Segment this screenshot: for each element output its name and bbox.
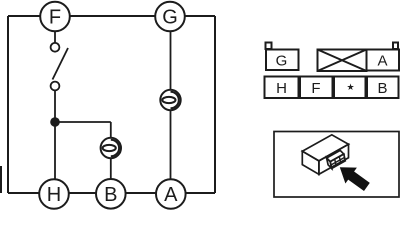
svg-text:G: G [276, 52, 288, 69]
svg-text:H: H [47, 184, 61, 206]
svg-text:F: F [311, 80, 320, 97]
svg-text:A: A [164, 184, 178, 206]
svg-text:G: G [162, 7, 178, 29]
svg-text:B: B [104, 184, 117, 206]
svg-text:B: B [377, 80, 387, 97]
svg-text:F: F [49, 7, 61, 29]
svg-text:H: H [276, 80, 287, 97]
svg-text:★: ★ [346, 82, 354, 92]
svg-text:A: A [377, 52, 387, 69]
